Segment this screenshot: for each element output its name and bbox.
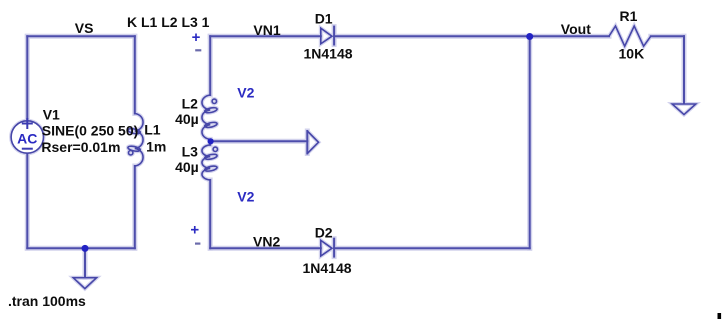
svg-text:K L1 L2 L3 1: K L1 L2 L3 1 — [127, 14, 210, 30]
svg-text:+: + — [192, 29, 201, 46]
svg-text:40µ: 40µ — [175, 159, 199, 175]
svg-text:V1: V1 — [43, 107, 60, 123]
svg-text:D1: D1 — [315, 11, 333, 27]
svg-text:AC: AC — [17, 131, 37, 147]
svg-text:SINE(0 250 50): SINE(0 250 50) — [42, 123, 139, 139]
svg-text:Rser=0.01m: Rser=0.01m — [41, 139, 120, 155]
svg-text:V2: V2 — [237, 189, 254, 205]
svg-text:D2: D2 — [315, 225, 333, 241]
svg-text:VN1: VN1 — [253, 22, 280, 38]
svg-text:10K: 10K — [619, 46, 645, 62]
svg-text:L3: L3 — [182, 144, 199, 160]
svg-text:1N4148: 1N4148 — [303, 260, 352, 276]
svg-text:L2: L2 — [182, 96, 199, 112]
svg-text:VS: VS — [75, 20, 94, 36]
svg-text:V2: V2 — [237, 85, 254, 101]
svg-text:Vout: Vout — [561, 21, 591, 37]
svg-text:+: + — [190, 222, 199, 239]
svg-text:L1: L1 — [144, 122, 161, 138]
svg-text:1m: 1m — [146, 139, 166, 155]
svg-text:R1: R1 — [620, 8, 638, 24]
svg-text:VN2: VN2 — [253, 234, 280, 250]
svg-text:.tran 100ms: .tran 100ms — [8, 293, 86, 309]
svg-text:1N4148: 1N4148 — [304, 46, 353, 62]
svg-text:40µ: 40µ — [175, 111, 199, 127]
